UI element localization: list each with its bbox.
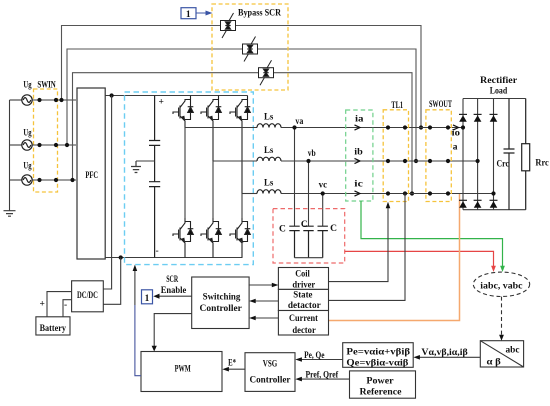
wire ellipse to transform (dashed)	[499, 297, 504, 341]
junction dots TL1 phase b	[386, 159, 407, 163]
junction dot phase b rectifier	[476, 159, 480, 163]
wire DCDC plus to DC+ rail	[103, 96, 111, 290]
junction dot DC- / DCDC	[119, 255, 123, 259]
wire arrow connector1 to bypass box	[196, 11, 211, 15]
box filter capacitors (dashed red)	[273, 209, 345, 263]
svg-text:dector: dector	[292, 326, 316, 336]
svg-text:Vα,vβ,iα,iβ: Vα,vβ,iα,iβ	[421, 348, 467, 358]
box Bypass SCR	[212, 4, 288, 90]
wire phase3 source to PFC	[32, 179, 76, 181]
wire DCDC minus to DC- rail	[103, 258, 120, 305]
ground (DC midpoint)	[131, 161, 141, 173]
svg-text:Reference: Reference	[360, 388, 402, 398]
svg-text:Controller: Controller	[200, 304, 243, 314]
junction dot tap a	[292, 125, 296, 129]
wire phase1 source to PFC	[32, 99, 76, 101]
junction dots SWOUT phase c	[428, 191, 450, 195]
junction dot tap b	[306, 159, 310, 163]
wire source1 left	[10, 99, 23, 101]
AC source Ug phase1	[22, 95, 32, 105]
block VSG Controller	[245, 353, 295, 392]
wire cap tap phase c	[322, 194, 324, 227]
wire cap tap phase a	[294, 128, 296, 227]
wire rectifier top rail	[463, 98, 526, 100]
svg-text:abc: abc	[506, 346, 520, 356]
svg-text:Ls: Ls	[264, 146, 274, 156]
SCR module 3	[259, 60, 274, 85]
diode bottom leg1	[459, 200, 467, 207]
svg-text:Pe=vαiα+vβiβ: Pe=vαiα+vβiβ	[346, 347, 410, 357]
svg-text:SWOUT: SWOUT	[429, 100, 452, 110]
wire battery plus to DCDC	[47, 292, 72, 317]
svg-text:E*: E*	[228, 359, 236, 369]
resistor Rrc	[522, 99, 530, 210]
svg-text:ib: ib	[354, 148, 363, 158]
svg-text:Enable: Enable	[161, 286, 187, 296]
svg-text:TL1: TL1	[391, 101, 403, 111]
block Coil driver	[278, 268, 328, 290]
block Switching Controller	[192, 277, 249, 329]
transistor IGBT top leg1	[173, 96, 193, 128]
wire DC+ rail	[105, 95, 247, 97]
wire coil driver to TL1 (with up arrow)	[329, 206, 388, 282]
wire battery minus to DCDC	[63, 300, 72, 317]
wire state detactor tap from phase c	[329, 194, 405, 301]
svg-text:-: -	[156, 247, 159, 257]
junction dot bypass3 left tap	[70, 178, 74, 182]
svg-text:Battery: Battery	[40, 324, 67, 334]
svg-text:Qe=vβiα-vαiβ: Qe=vβiα-vαiβ	[346, 359, 408, 369]
node iabc vabc (dashed ellipse)	[473, 272, 529, 296]
diode bottom leg3	[490, 200, 498, 207]
wire voltage measurement (red) to iabc ellipse	[345, 251, 494, 266]
svg-text:VSG: VSG	[263, 360, 278, 370]
junction dot bypass3 right tap	[410, 191, 414, 195]
block abc to alpha-beta transform	[480, 341, 523, 367]
capacitor C phase a	[289, 226, 299, 258]
svg-text:a: a	[453, 143, 458, 153]
svg-text:ia: ia	[355, 114, 364, 124]
svg-text:Ug: Ug	[23, 81, 31, 91]
wire bypass line1 (phase1 tap to TL1 side)	[62, 26, 422, 128]
diode bottom leg2	[474, 200, 482, 207]
junction dots TL1 phase c	[386, 191, 407, 195]
block PWM	[141, 352, 222, 392]
box current sensors ia ib ic (dashed green)	[346, 110, 373, 201]
capacitor DC-link upper	[149, 96, 160, 182]
svg-text:ic: ic	[354, 180, 363, 190]
svg-text:+: +	[40, 300, 45, 310]
wire Power Reference to VSG	[295, 377, 349, 382]
node left ground bus	[9, 100, 11, 211]
transistor IGBT bottom leg1	[173, 218, 193, 258]
svg-text:Ls: Ls	[264, 179, 274, 189]
junction dot bypass2 right tap	[414, 159, 418, 163]
junction dots SWOUT phase a	[428, 125, 450, 129]
wire phase c Ls to rectifier	[281, 193, 494, 195]
svg-text:Rectifier: Rectifier	[480, 76, 518, 86]
svg-text:α β: α β	[487, 358, 501, 368]
SCR module 1	[221, 13, 236, 38]
junction dot bypass2 left tap	[65, 143, 69, 147]
wire SC to Coil driver	[249, 283, 279, 288]
svg-text:va: va	[295, 117, 303, 127]
wire current dector tap (orange) from phase c	[329, 194, 460, 321]
block Power Reference	[350, 371, 416, 398]
diode top leg2	[474, 114, 482, 121]
wire leg1 mid	[184, 128, 186, 219]
transistor IGBT bottom leg2	[201, 218, 221, 258]
svg-text:SWIN: SWIN	[37, 80, 55, 90]
svg-text:vc: vc	[319, 180, 328, 190]
junction dot phase a rectifier	[461, 125, 465, 129]
wire rectifier leg1	[462, 99, 464, 210]
wire phase c leg3 to Ls	[242, 193, 257, 195]
box inverter (dashed cyan)	[125, 92, 254, 265]
svg-text:io: io	[452, 129, 461, 139]
wire source2 left	[10, 144, 23, 146]
transistor IGBT top leg3	[230, 96, 250, 194]
inductor Ls phase b	[257, 157, 281, 161]
wire bypass line3	[73, 73, 413, 194]
svg-text:Coil: Coil	[295, 270, 310, 280]
svg-text:vb: vb	[308, 149, 316, 159]
junction dots TL1 phase a	[386, 125, 407, 129]
junction dots SWIN phase3	[37, 178, 58, 182]
transistor IGBT top leg2	[201, 96, 221, 162]
current arrow ia	[355, 125, 361, 130]
AC source Ug phase3	[22, 175, 32, 185]
svg-text:C: C	[330, 224, 337, 234]
wire phase a Ls to rectifier	[281, 127, 463, 129]
block PFC	[77, 88, 105, 259]
wire DC midpoint to ground	[136, 160, 155, 162]
AC source Ug phase2	[22, 140, 32, 150]
wire bypass line2	[67, 49, 416, 161]
junction dot bypass1 right tap	[419, 125, 423, 129]
junction dots SWIN phase1	[37, 98, 58, 102]
junction dot bypass1 left tap	[59, 98, 63, 102]
arrowhead into TL1 bottom	[386, 202, 391, 209]
wire source3 left	[10, 179, 23, 181]
connector 1 (bottom)	[142, 290, 153, 304]
svg-text:Current: Current	[289, 314, 319, 324]
SCR module 2	[243, 37, 258, 62]
wire State detactor to SC	[249, 299, 278, 304]
svg-text:Ug: Ug	[23, 128, 31, 138]
inductor Ls phase c	[257, 190, 281, 194]
block Battery	[36, 317, 70, 335]
inductor Ls phase a	[257, 124, 281, 128]
svg-text:Pe, Qe: Pe, Qe	[304, 351, 324, 361]
svg-text:+: +	[159, 98, 164, 108]
box SWOUT (dashed yellow)	[426, 110, 451, 202]
svg-text:PFC: PFC	[85, 171, 98, 181]
svg-text:Bypass SCR: Bypass SCR	[238, 9, 281, 19]
block DC/DC	[72, 281, 104, 312]
wire rectifier bottom rail	[463, 209, 526, 211]
svg-text:C: C	[301, 220, 308, 230]
svg-text:-: -	[64, 301, 67, 311]
svg-text:1: 1	[186, 10, 191, 20]
wire rectifier leg2	[477, 99, 479, 210]
svg-text:Load: Load	[490, 86, 508, 96]
wire phase b Ls to rectifier	[281, 160, 478, 162]
svg-text:Ug: Ug	[23, 162, 31, 172]
wire capacitor common tie	[295, 257, 323, 259]
svg-text:detactor: detactor	[288, 301, 322, 311]
wire rectifier leg3	[493, 99, 495, 210]
wire current measurement (green) to iabc ellipse	[361, 201, 503, 267]
wire phase a leg1 to Ls	[185, 127, 257, 129]
svg-text:DC/DC: DC/DC	[77, 291, 98, 301]
wire power calc to VSG	[295, 357, 342, 362]
arrowhead red into ellipse	[491, 266, 496, 272]
wire transform to power calc	[413, 355, 480, 360]
connector 1 (top)	[181, 8, 196, 19]
wire PWM to inverter (gate signals)	[133, 265, 141, 376]
junction dot DC+ / DCDC	[110, 93, 114, 97]
svg-text:SCR: SCR	[166, 275, 178, 285]
ground (source neutral)	[4, 211, 16, 217]
wire leg2 mid	[212, 161, 214, 218]
svg-text:C: C	[279, 224, 286, 234]
transistor IGBT bottom leg3	[230, 218, 250, 258]
wire phase2 source to PFC	[32, 144, 76, 146]
capacitor C phase b	[303, 226, 313, 258]
svg-text:State: State	[293, 290, 312, 300]
current arrow ib	[355, 158, 361, 163]
svg-text:Crc: Crc	[497, 159, 510, 169]
wire cap tap phase b	[308, 161, 310, 226]
svg-text:iabc, vabc: iabc, vabc	[480, 281, 522, 291]
wire phase b leg2 to Ls	[213, 160, 257, 162]
switch box SWIN	[34, 89, 58, 192]
current arrow ic	[355, 191, 361, 196]
svg-text:Switching: Switching	[203, 293, 241, 303]
current arrow io	[453, 125, 459, 130]
junction dots SWIN phase2	[37, 143, 58, 147]
svg-text:PWM: PWM	[175, 365, 191, 375]
wire Current dector to SC	[249, 316, 278, 321]
svg-text:Controller: Controller	[250, 376, 292, 386]
svg-text:Rrc: Rrc	[535, 159, 548, 169]
wire DC- rail	[105, 257, 242, 259]
capacitor C phase c	[318, 226, 328, 258]
svg-text:Power: Power	[366, 376, 394, 386]
capacitor DC-link lower	[149, 182, 160, 258]
svg-text:Pref, Qref: Pref, Qref	[306, 371, 339, 381]
junction dot phase c rectifier	[491, 191, 495, 195]
block Current dector	[278, 311, 328, 336]
svg-text:1: 1	[145, 294, 150, 304]
wire leg3 mid	[241, 194, 243, 219]
wire VSG to PWM	[222, 367, 245, 372]
svg-text:Ls: Ls	[264, 113, 274, 123]
wire SC to PWM	[152, 314, 192, 352]
junction dots SWOUT phase b	[428, 159, 450, 163]
box TL1 (dashed yellow)	[383, 110, 408, 202]
diode top leg1	[459, 114, 467, 121]
capacitor Crc	[504, 99, 515, 210]
arrowhead green into ellipse	[500, 266, 505, 272]
block power calc Pe Qe	[343, 343, 414, 368]
wire SC to connector 1 (SCR enable)	[153, 294, 191, 299]
block State detactor	[278, 289, 328, 310]
diode top leg3	[490, 114, 498, 121]
junction dot tap c	[321, 191, 325, 195]
